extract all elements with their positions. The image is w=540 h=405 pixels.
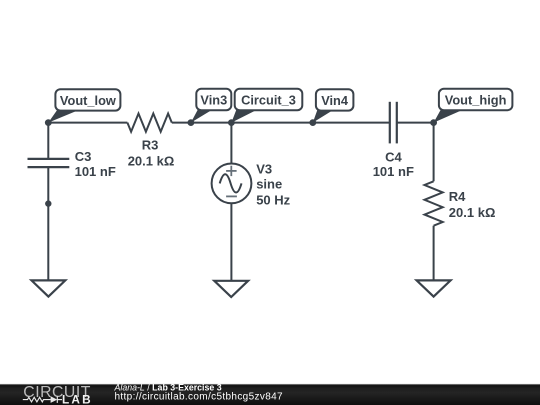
svg-text:R3: R3 bbox=[142, 138, 159, 153]
junction node Circuit_3 bbox=[228, 119, 235, 126]
svg-text:20.1 kΩ: 20.1 kΩ bbox=[449, 205, 496, 220]
net label Vin4 bbox=[313, 89, 354, 122]
wire Vin3 node to Circuit_3 node bbox=[191, 122, 232, 124]
wire Vout_low node to R3 left lead bbox=[48, 122, 127, 124]
ground right bbox=[417, 280, 451, 296]
wire R3 right lead to Vin3 node bbox=[172, 122, 191, 124]
junction node Vout_high bbox=[430, 119, 437, 126]
wire V3 bottom to middle ground bbox=[230, 203, 232, 280]
junction node below C3 bbox=[45, 200, 51, 206]
CircuitLab logo bbox=[23, 384, 93, 405]
resistor R4 bbox=[425, 181, 443, 225]
net label Vout_high bbox=[434, 89, 513, 123]
wire C4 right plate to Vout_high node bbox=[397, 122, 434, 124]
capacitor C3 bbox=[28, 159, 70, 167]
capacitor C4 bbox=[390, 102, 397, 144]
svg-text:Circuit_3: Circuit_3 bbox=[241, 92, 296, 107]
junction node Vin3 bbox=[188, 119, 195, 126]
svg-text:101 nF: 101 nF bbox=[373, 164, 414, 179]
svg-text:50 Hz: 50 Hz bbox=[256, 193, 290, 208]
ground middle bbox=[214, 281, 248, 297]
wire C3 bottom plate to left ground bbox=[47, 167, 49, 280]
voltage source V3 bbox=[212, 164, 252, 204]
svg-text:V3: V3 bbox=[256, 161, 272, 176]
wire Circuit_3 node to Vin4 node bbox=[231, 122, 312, 124]
svg-text:Vout_low: Vout_low bbox=[60, 93, 116, 108]
svg-text:R4: R4 bbox=[449, 189, 466, 204]
svg-text:C3: C3 bbox=[75, 149, 92, 164]
net label Vin3 bbox=[191, 89, 231, 123]
ground left bbox=[32, 280, 66, 296]
wire Circuit_3 node down to V3 top bbox=[230, 123, 232, 164]
junction node Vout_low bbox=[45, 119, 52, 126]
svg-text:C4: C4 bbox=[385, 149, 402, 164]
svg-text:http://circuitlab.com/c5tbhcg5: http://circuitlab.com/c5tbhcg5zv847 bbox=[115, 392, 284, 403]
svg-text:20.1 kΩ: 20.1 kΩ bbox=[128, 154, 175, 169]
svg-text:Vin3: Vin3 bbox=[200, 92, 227, 107]
wire R4 bottom lead to right ground bbox=[433, 226, 435, 281]
wire Vin4 node to C4 left plate bbox=[313, 122, 390, 124]
wire Vout_high node down to R4 top lead bbox=[433, 123, 435, 182]
svg-text:Vout_high: Vout_high bbox=[445, 92, 507, 107]
junction node Vin4 bbox=[309, 119, 316, 126]
svg-text:LAB: LAB bbox=[62, 392, 93, 405]
wire Vout_low node down to C3 top plate bbox=[47, 123, 49, 159]
svg-text:Vin4: Vin4 bbox=[321, 93, 349, 108]
net label Vout_low bbox=[48, 89, 120, 122]
svg-text:sine: sine bbox=[256, 177, 282, 192]
resistor R3 bbox=[127, 114, 171, 132]
svg-text:101 nF: 101 nF bbox=[75, 164, 116, 179]
net label Circuit_3 bbox=[231, 89, 302, 123]
